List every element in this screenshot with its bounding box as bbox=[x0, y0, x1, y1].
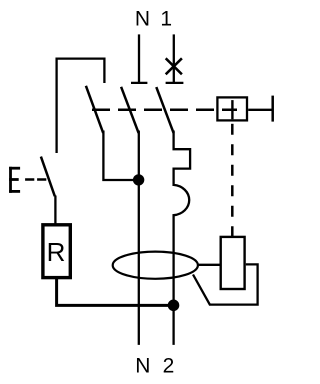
toroid current transformer (ellipse) bbox=[113, 252, 198, 279]
svg-text:N: N bbox=[135, 355, 150, 378]
mechanical linkage (dashed) across poles to test button bbox=[92, 109, 237, 112]
svg-text:R: R bbox=[47, 237, 66, 267]
trip relay coil (rectangle) bbox=[221, 237, 245, 289]
junction dot node A/N bbox=[133, 174, 144, 185]
test button stem bbox=[248, 109, 272, 111]
wire L1 top lead bbox=[173, 34, 175, 83]
wire toroid secondary to relay left bbox=[198, 264, 220, 266]
wire bridge bracket (test-resistor tap from L1 side) bbox=[57, 59, 105, 153]
wire relay right return to toroid bbox=[193, 264, 258, 304]
test switch blade (E switch) bbox=[41, 157, 55, 197]
dashed trip linkage from test box to relay bbox=[231, 124, 234, 237]
wire N top lead bbox=[138, 34, 140, 83]
wire resistor bottom to L1 junction bbox=[57, 279, 174, 305]
svg-text:N: N bbox=[135, 8, 150, 31]
test button box with cross (manual test actuator) bbox=[217, 97, 247, 120]
label E (earth/test electrode) drawn narrow bbox=[9, 167, 20, 193]
dashed link E to test switch bbox=[25, 178, 46, 181]
contact blade pole A (test circuit pole) bbox=[86, 86, 103, 133]
svg-text:2: 2 bbox=[163, 355, 175, 378]
terminal bar N pole bbox=[131, 82, 147, 84]
wire L1 conductor: jog and half-turn through toroid bbox=[174, 131, 191, 345]
contact blade pole L1 bbox=[156, 87, 173, 133]
terminal bar L1 pole bbox=[166, 82, 184, 84]
wire pole A output down bbox=[103, 131, 138, 181]
junction dot node L1/bottom bbox=[168, 300, 180, 312]
fuse/cross mark X on L1 lead bbox=[166, 58, 182, 74]
wire switch to resistor bbox=[54, 196, 56, 225]
resistor R box bbox=[43, 225, 70, 278]
svg-text:1: 1 bbox=[160, 8, 172, 31]
test button cap bar bbox=[271, 96, 274, 122]
contact blade pole N bbox=[121, 87, 139, 133]
wire N conductor through toroid to bottom bbox=[138, 131, 140, 345]
